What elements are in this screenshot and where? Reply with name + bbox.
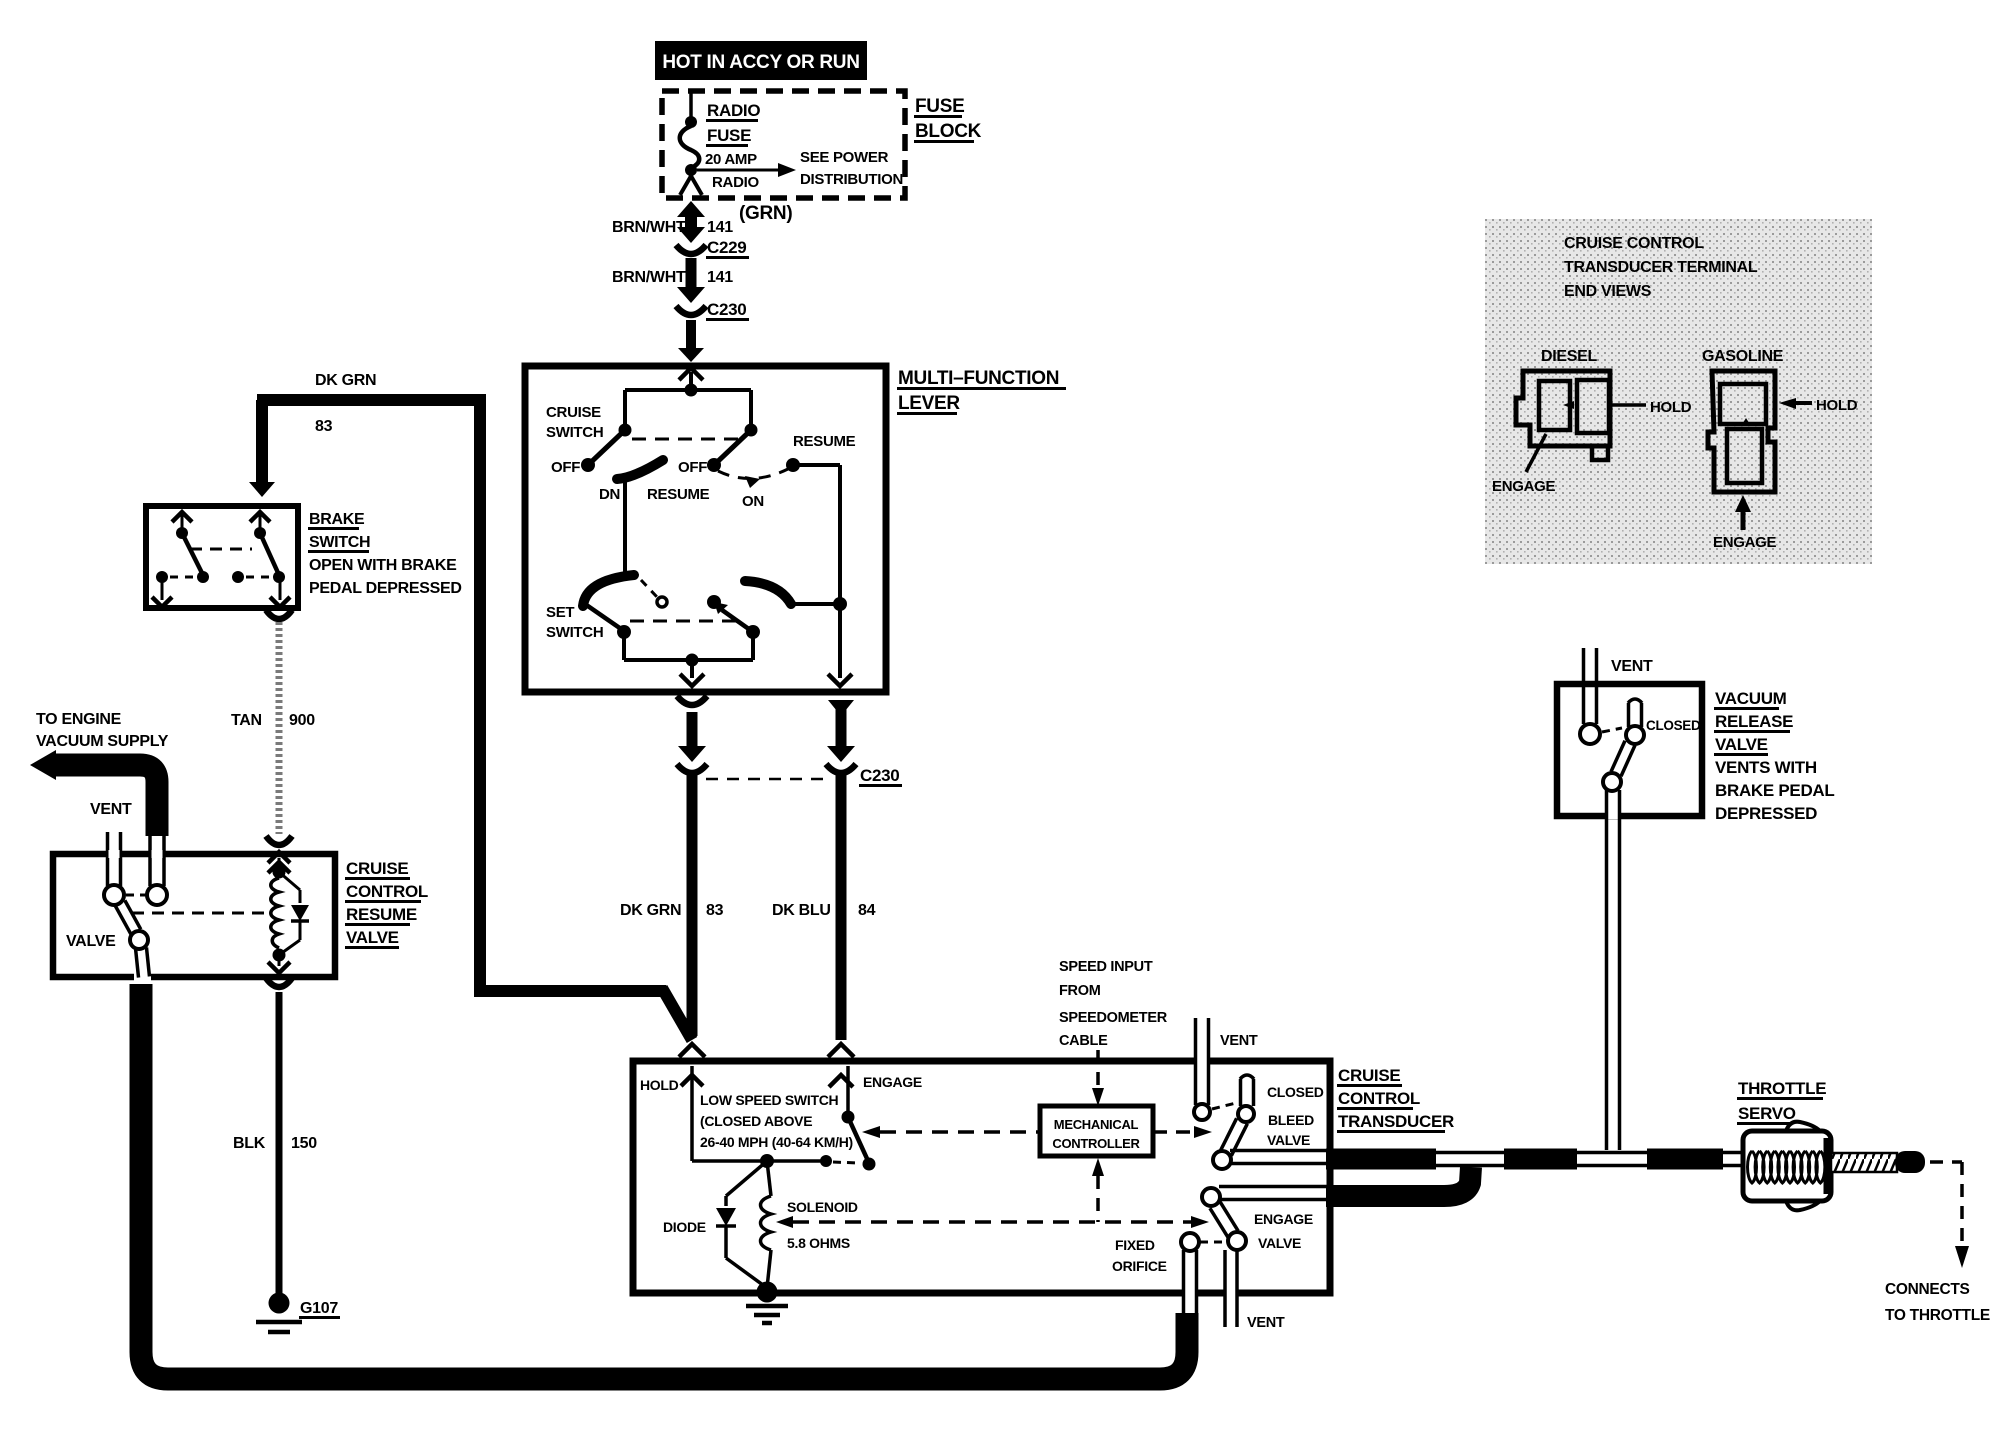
servo threaded rod (1831, 1151, 1925, 1173)
svg-text:HOLD: HOLD (1816, 397, 1858, 414)
transducer label (1337, 1066, 1454, 1133)
svg-text:SPEED INPUT: SPEED INPUT (1059, 959, 1153, 975)
svg-text:BRN/WHT: BRN/WHT (612, 269, 686, 286)
wire DK GRN 83 horizontal run (257, 372, 486, 435)
svg-text:26-40 MPH (40-64 KM/H): 26-40 MPH (40-64 KM/H) (700, 1134, 853, 1150)
dashed solenoid to engage valve (776, 1216, 1209, 1228)
svg-text:ENGAGE: ENGAGE (1254, 1211, 1313, 1227)
svg-text:CONTROL: CONTROL (346, 882, 428, 901)
vacuum hose from resume valve to transducer (big loop) (141, 984, 1187, 1379)
svg-text:DN: DN (599, 486, 620, 503)
wire BRN/WHT 141 (C229 to C230) (612, 258, 733, 303)
brake switch box (146, 506, 298, 608)
hold input wire (640, 1066, 703, 1161)
svg-text:FUSE: FUSE (707, 126, 751, 145)
svg-text:150: 150 (291, 1135, 317, 1152)
dashed link MC to low speed switch (862, 1126, 1040, 1138)
svg-text:CLOSED: CLOSED (1267, 1084, 1324, 1100)
svg-text:ENGAGE: ENGAGE (1492, 478, 1556, 495)
arrows into transducer box (679, 1044, 854, 1057)
svg-text:BRAKE: BRAKE (309, 511, 365, 528)
svg-text:DK GRN: DK GRN (315, 372, 376, 389)
hose transducer to servo (lower, engage) (1326, 1167, 1471, 1196)
svg-text:LEVER: LEVER (898, 393, 960, 414)
svg-text:RELEASE: RELEASE (1715, 712, 1793, 731)
svg-text:OPEN WITH BRAKE: OPEN WITH BRAKE (309, 557, 457, 574)
release valve labels (1646, 689, 1835, 823)
connector above resume valve (266, 836, 292, 863)
svg-text:BRAKE PEDAL: BRAKE PEDAL (1715, 781, 1835, 800)
hose transducer to servo (upper) (1326, 1153, 1743, 1166)
vacuum release valve box (1557, 684, 1702, 816)
vent tube (resume valve) (108, 832, 121, 886)
svg-text:900: 900 (289, 712, 315, 729)
connector below brake switch (266, 610, 292, 619)
svg-text:VENT: VENT (1220, 1033, 1258, 1049)
connector C230 (lower left) (677, 764, 707, 773)
wire DK GRN 83 (620, 712, 724, 1036)
svg-text:ORIFICE: ORIFICE (1112, 1258, 1167, 1274)
svg-text:VALVE: VALVE (1715, 735, 1768, 754)
throttle servo body (1743, 1122, 1831, 1211)
wire BRN/WHT 141 (fuse to C229) (612, 201, 733, 243)
solenoid coil 5.8 ohms (761, 1161, 858, 1288)
svg-text:141: 141 (707, 219, 733, 236)
set switch pole 2 (707, 581, 847, 639)
connector C230 (upper) (676, 300, 749, 321)
svg-text:MULTI–FUNCTION: MULTI–FUNCTION (898, 368, 1059, 389)
svg-text:RESUME: RESUME (647, 486, 710, 503)
set switch pole 1 (583, 575, 738, 639)
ground (solenoid) (746, 1282, 788, 1324)
svg-text:CLOSED: CLOSED (1646, 718, 1701, 733)
svg-text:RADIO: RADIO (707, 101, 760, 120)
svg-text:CONNECTS: CONNECTS (1885, 1281, 1970, 1298)
svg-text:DK GRN: DK GRN (620, 902, 681, 919)
svg-text:ENGAGE: ENGAGE (863, 1074, 922, 1090)
svg-text:ENGAGE: ENGAGE (1713, 534, 1777, 551)
brake switch pole 2 (232, 512, 290, 607)
svg-text:VACUUM SUPPLY: VACUUM SUPPLY (36, 733, 169, 750)
svg-text:RESUME: RESUME (346, 905, 417, 924)
svg-text:OFF: OFF (678, 459, 707, 476)
connector C229 (676, 238, 749, 259)
dashed MC down link (1092, 1158, 1104, 1222)
ground G107 (256, 1286, 340, 1332)
svg-text:5.8 OHMS: 5.8 OHMS (787, 1235, 850, 1251)
svg-text:HOLD: HOLD (640, 1077, 679, 1093)
svg-text:83: 83 (315, 418, 333, 435)
svg-text:SWITCH: SWITCH (546, 424, 603, 441)
svg-text:(GRN): (GRN) (739, 203, 792, 224)
connector below resume valve (266, 978, 292, 987)
svg-text:VALVE: VALVE (66, 933, 116, 950)
svg-text:VENT: VENT (90, 801, 132, 818)
svg-text:TRANSDUCER TERMINAL: TRANSDUCER TERMINAL (1564, 259, 1758, 276)
release valve rod down to hose (1607, 790, 1620, 1150)
vent below transducer (1225, 1250, 1285, 1331)
cruise switch pole 1 (OFF-ON) (551, 424, 744, 504)
connects to throttle label (1885, 1281, 1990, 1324)
svg-text:DISTRIBUTION: DISTRIBUTION (800, 171, 903, 188)
vent above transducer (1194, 1018, 1258, 1120)
svg-text:VENTS WITH: VENTS WITH (1715, 758, 1817, 777)
wire BLK 150 (233, 992, 317, 1290)
closed bleed valve (1212, 1075, 1334, 1169)
svg-text:FIXED: FIXED (1115, 1237, 1155, 1253)
connector C230 (lower right) (706, 764, 902, 787)
vent label (resume valve) (90, 801, 132, 818)
dashed link MC to bleed valve (1153, 1126, 1212, 1138)
multi-function lever box (525, 366, 886, 692)
svg-text:VENT: VENT (1611, 658, 1653, 675)
svg-text:GASOLINE: GASOLINE (1702, 348, 1784, 365)
svg-text:ON: ON (742, 493, 764, 510)
svg-text:VALVE: VALVE (1258, 1235, 1301, 1251)
low speed switch text + frame (692, 1092, 853, 1161)
svg-text:FUSE: FUSE (915, 96, 964, 117)
svg-text:SET: SET (546, 604, 574, 621)
wire TAN 900 (stippled) (231, 622, 315, 834)
inset title (1564, 235, 1758, 300)
wire label (GRN) (739, 203, 792, 224)
speed input label (1059, 959, 1168, 1049)
svg-text:CONTROL: CONTROL (1338, 1089, 1420, 1108)
svg-text:DEPRESSED: DEPRESSED (1715, 804, 1817, 823)
mechanical controller box (1040, 1106, 1153, 1156)
brake switch labels (308, 511, 462, 597)
svg-text:G107: G107 (300, 1300, 338, 1317)
svg-text:TRANSDUCER: TRANSDUCER (1338, 1112, 1454, 1131)
svg-text:CRUISE: CRUISE (546, 404, 601, 421)
svg-text:SWITCH: SWITCH (546, 624, 603, 641)
svg-text:SPEEDOMETER: SPEEDOMETER (1059, 1010, 1168, 1026)
brake switch pole 1 (152, 512, 252, 607)
edge gaps for tubes (resume valve) (109, 850, 163, 981)
multi-function lever label (897, 368, 1066, 415)
svg-text:HOT IN ACCY OR RUN: HOT IN ACCY OR RUN (662, 52, 859, 73)
svg-text:VALVE: VALVE (346, 928, 399, 947)
wire feed inside lever box (625, 372, 751, 430)
fuse block label (914, 96, 982, 143)
svg-text:HOLD: HOLD (1650, 399, 1692, 416)
power label HOT IN ACCY OR RUN (655, 41, 867, 80)
wire pole1 down to set switch (623, 480, 627, 578)
svg-text:TAN: TAN (231, 712, 262, 729)
fuse block dashed box (662, 91, 905, 198)
svg-text:PEDAL DEPRESSED: PEDAL DEPRESSED (309, 580, 462, 597)
svg-text:TO THROTTLE: TO THROTTLE (1885, 1307, 1990, 1324)
svg-text:(CLOSED ABOVE: (CLOSED ABOVE (700, 1113, 812, 1129)
svg-text:LOW SPEED SWITCH: LOW SPEED SWITCH (700, 1092, 839, 1108)
relay coil + diode (resume valve) (268, 858, 309, 973)
set switch output wires (624, 632, 753, 686)
inset gray panel (1485, 219, 1872, 564)
vacuum supply hose with arrow (30, 750, 164, 886)
svg-text:FROM: FROM (1059, 983, 1101, 999)
vent tube (release valve) (1580, 648, 1600, 744)
svg-text:BRN/WHT: BRN/WHT (612, 219, 686, 236)
cruise control transducer box (633, 1061, 1330, 1293)
svg-text:VENT: VENT (1247, 1315, 1285, 1331)
engage valve (1181, 1187, 1334, 1252)
fixed orifice (1112, 1237, 1197, 1313)
cruise switch pole 2 (OFF-ON-RESUME) (678, 424, 856, 511)
diode (transducer) (663, 1161, 767, 1288)
svg-text:BLK: BLK (233, 1135, 266, 1152)
wire DK GRN right leg down (474, 394, 692, 1040)
cruise switch label (546, 404, 603, 441)
svg-text:DIODE: DIODE (663, 1219, 706, 1235)
wire resume to right leg (793, 465, 840, 604)
vent label (release valve) (1611, 658, 1653, 675)
svg-text:CONTROLLER: CONTROLLER (1052, 1136, 1140, 1151)
valve label inside (66, 933, 116, 950)
svg-text:SEE POWER: SEE POWER (800, 149, 889, 166)
svg-text:CRUISE: CRUISE (1338, 1066, 1400, 1085)
svg-text:CRUISE: CRUISE (346, 859, 408, 878)
svg-text:BLEED: BLEED (1268, 1112, 1314, 1128)
low speed switch contacts (760, 1111, 876, 1171)
connector below lever right (828, 700, 854, 716)
svg-text:DK BLU: DK BLU (772, 902, 831, 919)
wire down to brake switch (249, 400, 275, 497)
svg-text:BLOCK: BLOCK (915, 121, 982, 142)
svg-text:DIESEL: DIESEL (1541, 348, 1598, 365)
svg-text:C230: C230 (860, 766, 899, 785)
svg-text:SWITCH: SWITCH (309, 534, 370, 551)
engage input wire (829, 1066, 922, 1115)
svg-text:83: 83 (706, 902, 724, 919)
gasoline connector end view (1702, 348, 1858, 492)
cruise control resume valve box (53, 854, 335, 977)
svg-text:RADIO: RADIO (712, 174, 759, 191)
wire DK BLU 84 (772, 700, 876, 1040)
valve ports and lever (resume valve) (104, 885, 270, 978)
svg-text:84: 84 (858, 902, 876, 919)
to engine vacuum supply label (36, 711, 169, 750)
svg-text:THROTTLE: THROTTLE (1738, 1079, 1826, 1098)
arrow SEE POWER DISTRIBUTION (697, 149, 903, 188)
connector below lever left (677, 696, 707, 705)
svg-text:RESUME: RESUME (793, 433, 856, 450)
svg-text:SOLENOID: SOLENOID (787, 1199, 858, 1215)
throttle servo label (1737, 1079, 1826, 1125)
diesel engage pointer (1492, 434, 1556, 495)
svg-text:20 AMP: 20 AMP (705, 151, 757, 168)
diesel connector end view (1516, 348, 1692, 460)
servo spring (1748, 1151, 1825, 1183)
svg-text:MECHANICAL: MECHANICAL (1054, 1117, 1139, 1132)
resume valve labels (345, 859, 428, 949)
svg-text:TO ENGINE: TO ENGINE (36, 711, 122, 728)
svg-text:SERVO: SERVO (1738, 1104, 1796, 1123)
release valve lever (1602, 699, 1644, 791)
svg-text:141: 141 (707, 269, 733, 286)
svg-text:VACUUM: VACUUM (1715, 689, 1787, 708)
svg-text:VALVE: VALVE (1267, 1132, 1310, 1148)
svg-text:CABLE: CABLE (1059, 1033, 1108, 1049)
svg-text:OFF: OFF (551, 459, 580, 476)
radio fuse F (20 AMP) (680, 93, 761, 195)
svg-text:C230: C230 (707, 300, 746, 319)
dashed speed input into MC (1092, 1050, 1104, 1106)
svg-text:END VIEWS: END VIEWS (1564, 283, 1652, 300)
svg-text:C229: C229 (707, 238, 746, 257)
right leg to box bottom (828, 604, 852, 686)
set switch label (546, 604, 603, 641)
gasoline engage arrow (1713, 495, 1777, 551)
svg-text:CRUISE CONTROL: CRUISE CONTROL (1564, 235, 1704, 252)
dashed link to throttle (1930, 1162, 1969, 1268)
wire into multi-function lever (678, 320, 704, 380)
